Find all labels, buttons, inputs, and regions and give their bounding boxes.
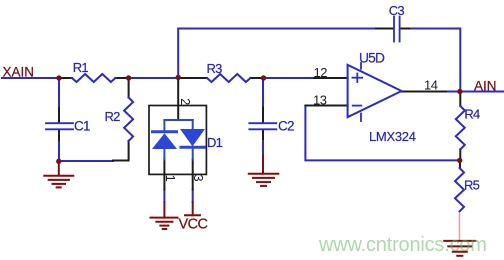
svg-text:R3: R3: [207, 61, 223, 76]
svg-text:14: 14: [424, 77, 438, 92]
svg-text:2: 2: [178, 98, 192, 105]
svg-text:R5: R5: [464, 178, 480, 193]
svg-text:www.cntronics.com: www.cntronics.com: [318, 234, 487, 256]
svg-text:12: 12: [314, 65, 328, 80]
svg-text:C1: C1: [74, 119, 90, 134]
svg-text:13: 13: [313, 92, 327, 107]
svg-text:U5D: U5D: [359, 51, 385, 66]
svg-text:VCC: VCC: [179, 216, 208, 232]
svg-text:R2: R2: [105, 109, 121, 124]
svg-text:AIN: AIN: [474, 78, 497, 93]
svg-text:XAIN: XAIN: [3, 65, 35, 80]
svg-text:R1: R1: [73, 60, 89, 75]
svg-text:LMX324: LMX324: [369, 129, 416, 144]
svg-text:C2: C2: [278, 119, 294, 134]
svg-text:R4: R4: [464, 107, 480, 122]
svg-text:D1: D1: [207, 135, 223, 150]
svg-text:1: 1: [163, 175, 178, 182]
svg-text:C3: C3: [389, 3, 405, 18]
svg-text:3: 3: [191, 174, 206, 181]
